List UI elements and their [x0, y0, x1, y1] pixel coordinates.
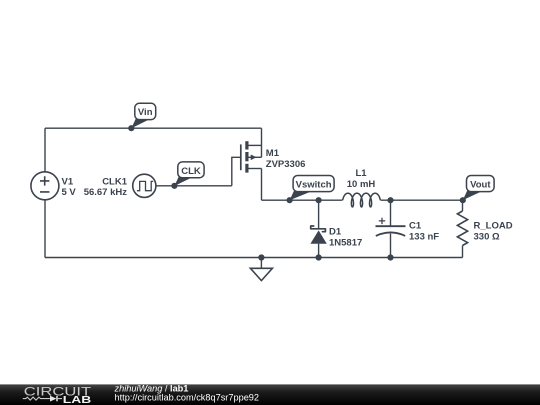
cathode bar with schottky hooks [311, 226, 326, 232]
svg-text:ZVP3306: ZVP3306 [266, 159, 306, 170]
svg-text:V1: V1 [62, 176, 74, 187]
svg-text:R_LOAD: R_LOAD [474, 220, 513, 231]
curved bottom plate [376, 232, 405, 235]
wire anode to ground rail [318, 244, 320, 258]
plus sign [379, 218, 385, 224]
svg-text:10 mH: 10 mH [347, 179, 376, 190]
svg-text:56.67 kHz: 56.67 kHz [84, 187, 128, 198]
drain stub [249, 168, 262, 170]
junction dot C1 top [387, 197, 393, 203]
svg-text:330 Ω: 330 Ω [474, 231, 500, 242]
voltage source V1 [31, 172, 59, 200]
svg-text:Vswitch: Vswitch [296, 180, 332, 191]
svg-text:CLK1: CLK1 [102, 176, 128, 187]
junction dot D1 bottom [316, 254, 322, 260]
junction dot C1 bottom [387, 254, 393, 260]
wire top Vin net [45, 127, 262, 129]
wire top [462, 200, 464, 211]
footer bar [0, 383, 540, 405]
svg-text:1N5817: 1N5817 [329, 237, 362, 248]
diode D1 schottky [310, 200, 326, 257]
channel bar body segment [245, 152, 248, 161]
transistor M1 PMOS [241, 141, 262, 172]
wire Vswitch rail [262, 199, 343, 201]
svg-text:LAB: LAB [63, 395, 91, 405]
gate bar [240, 144, 242, 170]
node flag CLK [171, 162, 204, 189]
clock source CLK1 [133, 174, 156, 197]
top plate [376, 225, 406, 227]
zigzag [457, 211, 467, 246]
node flag Vout [460, 176, 494, 204]
logo diode symbol [50, 396, 57, 402]
svg-text:http://circuitlab.com/ck8q7sr7: http://circuitlab.com/ck8q7sr7ppe92 [115, 393, 260, 403]
svg-text:CLK: CLK [181, 166, 201, 177]
wire CLK1 to gate riser [156, 185, 232, 187]
wire left vertical from top to V1 [44, 128, 46, 172]
body stub [249, 156, 262, 158]
channel bar drain segment [245, 164, 248, 173]
logo resistor zigzag [23, 397, 50, 400]
svg-text:M1: M1 [266, 148, 280, 159]
capacitor C1 polarized [376, 200, 406, 257]
inductor L1 coil [343, 193, 381, 207]
source stub [249, 144, 262, 146]
wire bottom [462, 246, 464, 258]
node flag Vin [128, 103, 156, 131]
wire L1 to Vout [381, 199, 463, 201]
svg-text:Vout: Vout [470, 180, 491, 191]
anode triangle [310, 230, 326, 243]
wire drain drop to Vswitch rail [261, 169, 263, 201]
junction dot D1 top [316, 197, 322, 203]
junction dot ground [258, 254, 264, 260]
svg-text:C1: C1 [409, 220, 422, 231]
wire V1 bottom to ground rail [44, 200, 46, 258]
svg-text:D1: D1 [329, 227, 342, 238]
node flag Vswitch [287, 176, 335, 204]
svg-text:133 nF: 133 nF [409, 231, 439, 242]
svg-text:5 V: 5 V [62, 187, 77, 198]
wire Vswitch to cathode [318, 200, 320, 229]
wire source/body riser to top rail [261, 128, 263, 157]
channel bar source segment [245, 141, 248, 149]
resistor R_LOAD [457, 200, 467, 257]
wire top [390, 200, 392, 226]
wire gate riser vertical [232, 157, 240, 186]
wire bottom ground rail [45, 257, 463, 259]
wire bottom [390, 234, 392, 258]
svg-text:Vin: Vin [138, 107, 153, 118]
body arrow [251, 155, 257, 161]
ground symbol [250, 258, 272, 281]
svg-text:L1: L1 [355, 168, 367, 179]
